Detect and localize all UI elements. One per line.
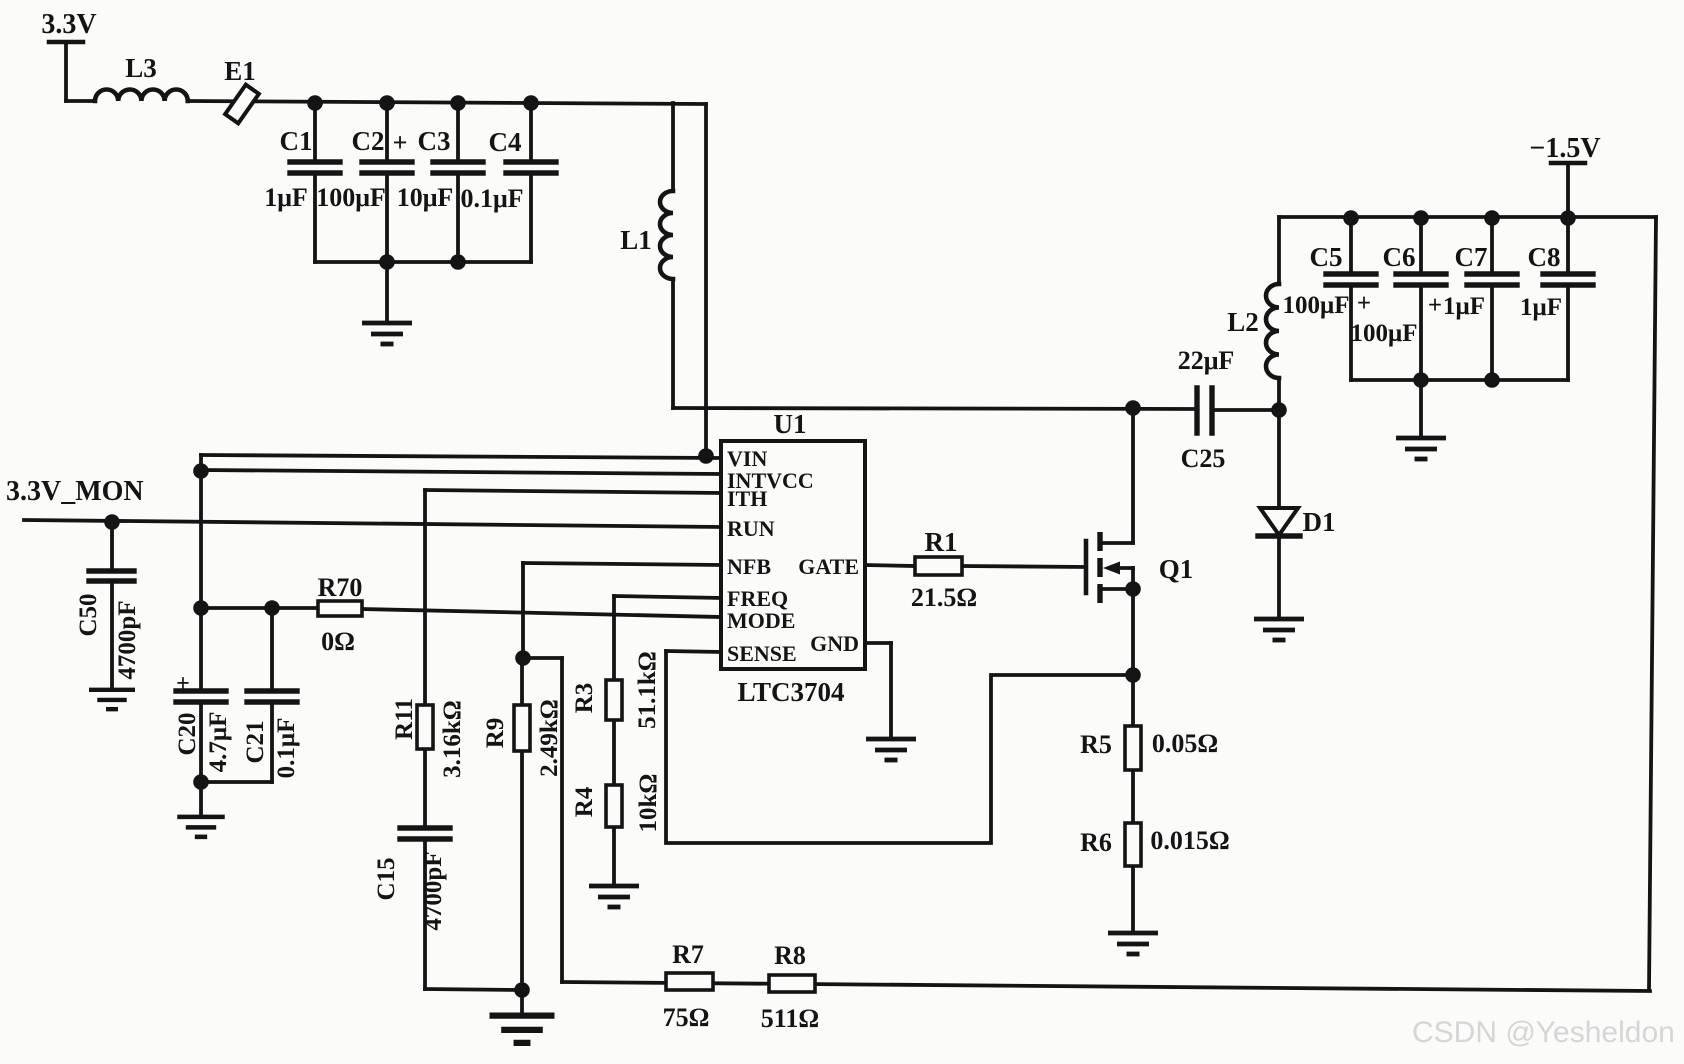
svg-text:R1: R1: [925, 527, 958, 557]
svg-text:+: +: [393, 128, 408, 157]
svg-text:L1: L1: [620, 225, 652, 255]
svg-text:D1: D1: [1303, 507, 1336, 537]
svg-text:LTC3704: LTC3704: [737, 677, 844, 707]
svg-text:C4: C4: [489, 127, 522, 157]
svg-text:R70: R70: [318, 573, 363, 602]
svg-text:C25: C25: [1181, 444, 1226, 473]
svg-text:R7: R7: [672, 940, 704, 969]
svg-text:+: +: [1357, 290, 1371, 317]
svg-text:21.5Ω: 21.5Ω: [911, 583, 977, 612]
svg-text:R11: R11: [391, 698, 418, 740]
svg-text:C1: C1: [280, 126, 313, 156]
svg-text:C3: C3: [418, 126, 451, 156]
svg-text:0Ω: 0Ω: [321, 627, 355, 656]
svg-text:R8: R8: [774, 941, 806, 970]
svg-text:4.7μF: 4.7μF: [205, 712, 232, 773]
svg-text:4700pF: 4700pF: [420, 851, 447, 930]
svg-text:511Ω: 511Ω: [761, 1004, 819, 1033]
svg-text:3.16kΩ: 3.16kΩ: [439, 700, 466, 778]
svg-text:C21: C21: [242, 720, 269, 763]
svg-text:R3: R3: [571, 683, 598, 714]
svg-text:10μF: 10μF: [397, 183, 454, 212]
svg-text:C15: C15: [373, 857, 400, 900]
svg-text:3.3V_MON: 3.3V_MON: [6, 476, 144, 507]
svg-text:C20: C20: [174, 712, 201, 755]
svg-text:75Ω: 75Ω: [663, 1003, 710, 1032]
svg-text:Q1: Q1: [1159, 554, 1194, 584]
svg-text:C7: C7: [1455, 242, 1488, 272]
svg-text:L3: L3: [125, 53, 157, 83]
svg-text:100μF: 100μF: [316, 183, 386, 212]
svg-text:1μF: 1μF: [264, 183, 308, 212]
svg-text:0.1μF: 0.1μF: [460, 184, 523, 213]
svg-text:1μF: 1μF: [1443, 293, 1485, 320]
svg-text:100μF: 100μF: [1283, 292, 1350, 319]
svg-text:C8: C8: [1528, 242, 1561, 272]
svg-text:ITH: ITH: [727, 486, 767, 511]
svg-text:C6: C6: [1383, 242, 1416, 272]
svg-text:R5: R5: [1080, 730, 1112, 759]
svg-text:3.3V: 3.3V: [41, 9, 96, 40]
svg-text:GATE: GATE: [798, 554, 859, 579]
svg-text:4700pF: 4700pF: [114, 600, 141, 679]
svg-text:R4: R4: [571, 786, 598, 817]
svg-text:C2: C2: [352, 126, 385, 156]
svg-text:2.49kΩ: 2.49kΩ: [536, 699, 563, 777]
svg-text:22μF: 22μF: [1178, 346, 1235, 375]
svg-text:R9: R9: [482, 718, 509, 749]
svg-text:10kΩ: 10kΩ: [635, 774, 662, 833]
svg-text:R6: R6: [1080, 828, 1112, 857]
svg-text:+: +: [1428, 292, 1442, 319]
svg-text:0.015Ω: 0.015Ω: [1150, 826, 1229, 855]
svg-text:NFB: NFB: [727, 554, 771, 579]
svg-text:RUN: RUN: [727, 516, 775, 541]
svg-text:100μF: 100μF: [1351, 320, 1418, 347]
svg-text:CSDN @Yesheldon: CSDN @Yesheldon: [1412, 1016, 1675, 1049]
svg-text:−1.5V: −1.5V: [1529, 133, 1600, 164]
svg-text:MODE: MODE: [727, 608, 795, 633]
svg-text:51.1kΩ: 51.1kΩ: [634, 651, 661, 729]
svg-text:E1: E1: [224, 56, 256, 86]
svg-text:0.1μF: 0.1μF: [273, 718, 300, 779]
svg-text:C5: C5: [1310, 242, 1343, 272]
svg-text:+: +: [176, 671, 190, 697]
svg-text:GND: GND: [810, 631, 859, 656]
svg-text:1μF: 1μF: [1520, 294, 1562, 321]
svg-text:0.05Ω: 0.05Ω: [1152, 729, 1218, 758]
svg-text:U1: U1: [774, 409, 807, 439]
svg-text:L2: L2: [1227, 307, 1259, 337]
svg-text:C50: C50: [75, 593, 102, 636]
svg-text:SENSE: SENSE: [727, 641, 797, 666]
